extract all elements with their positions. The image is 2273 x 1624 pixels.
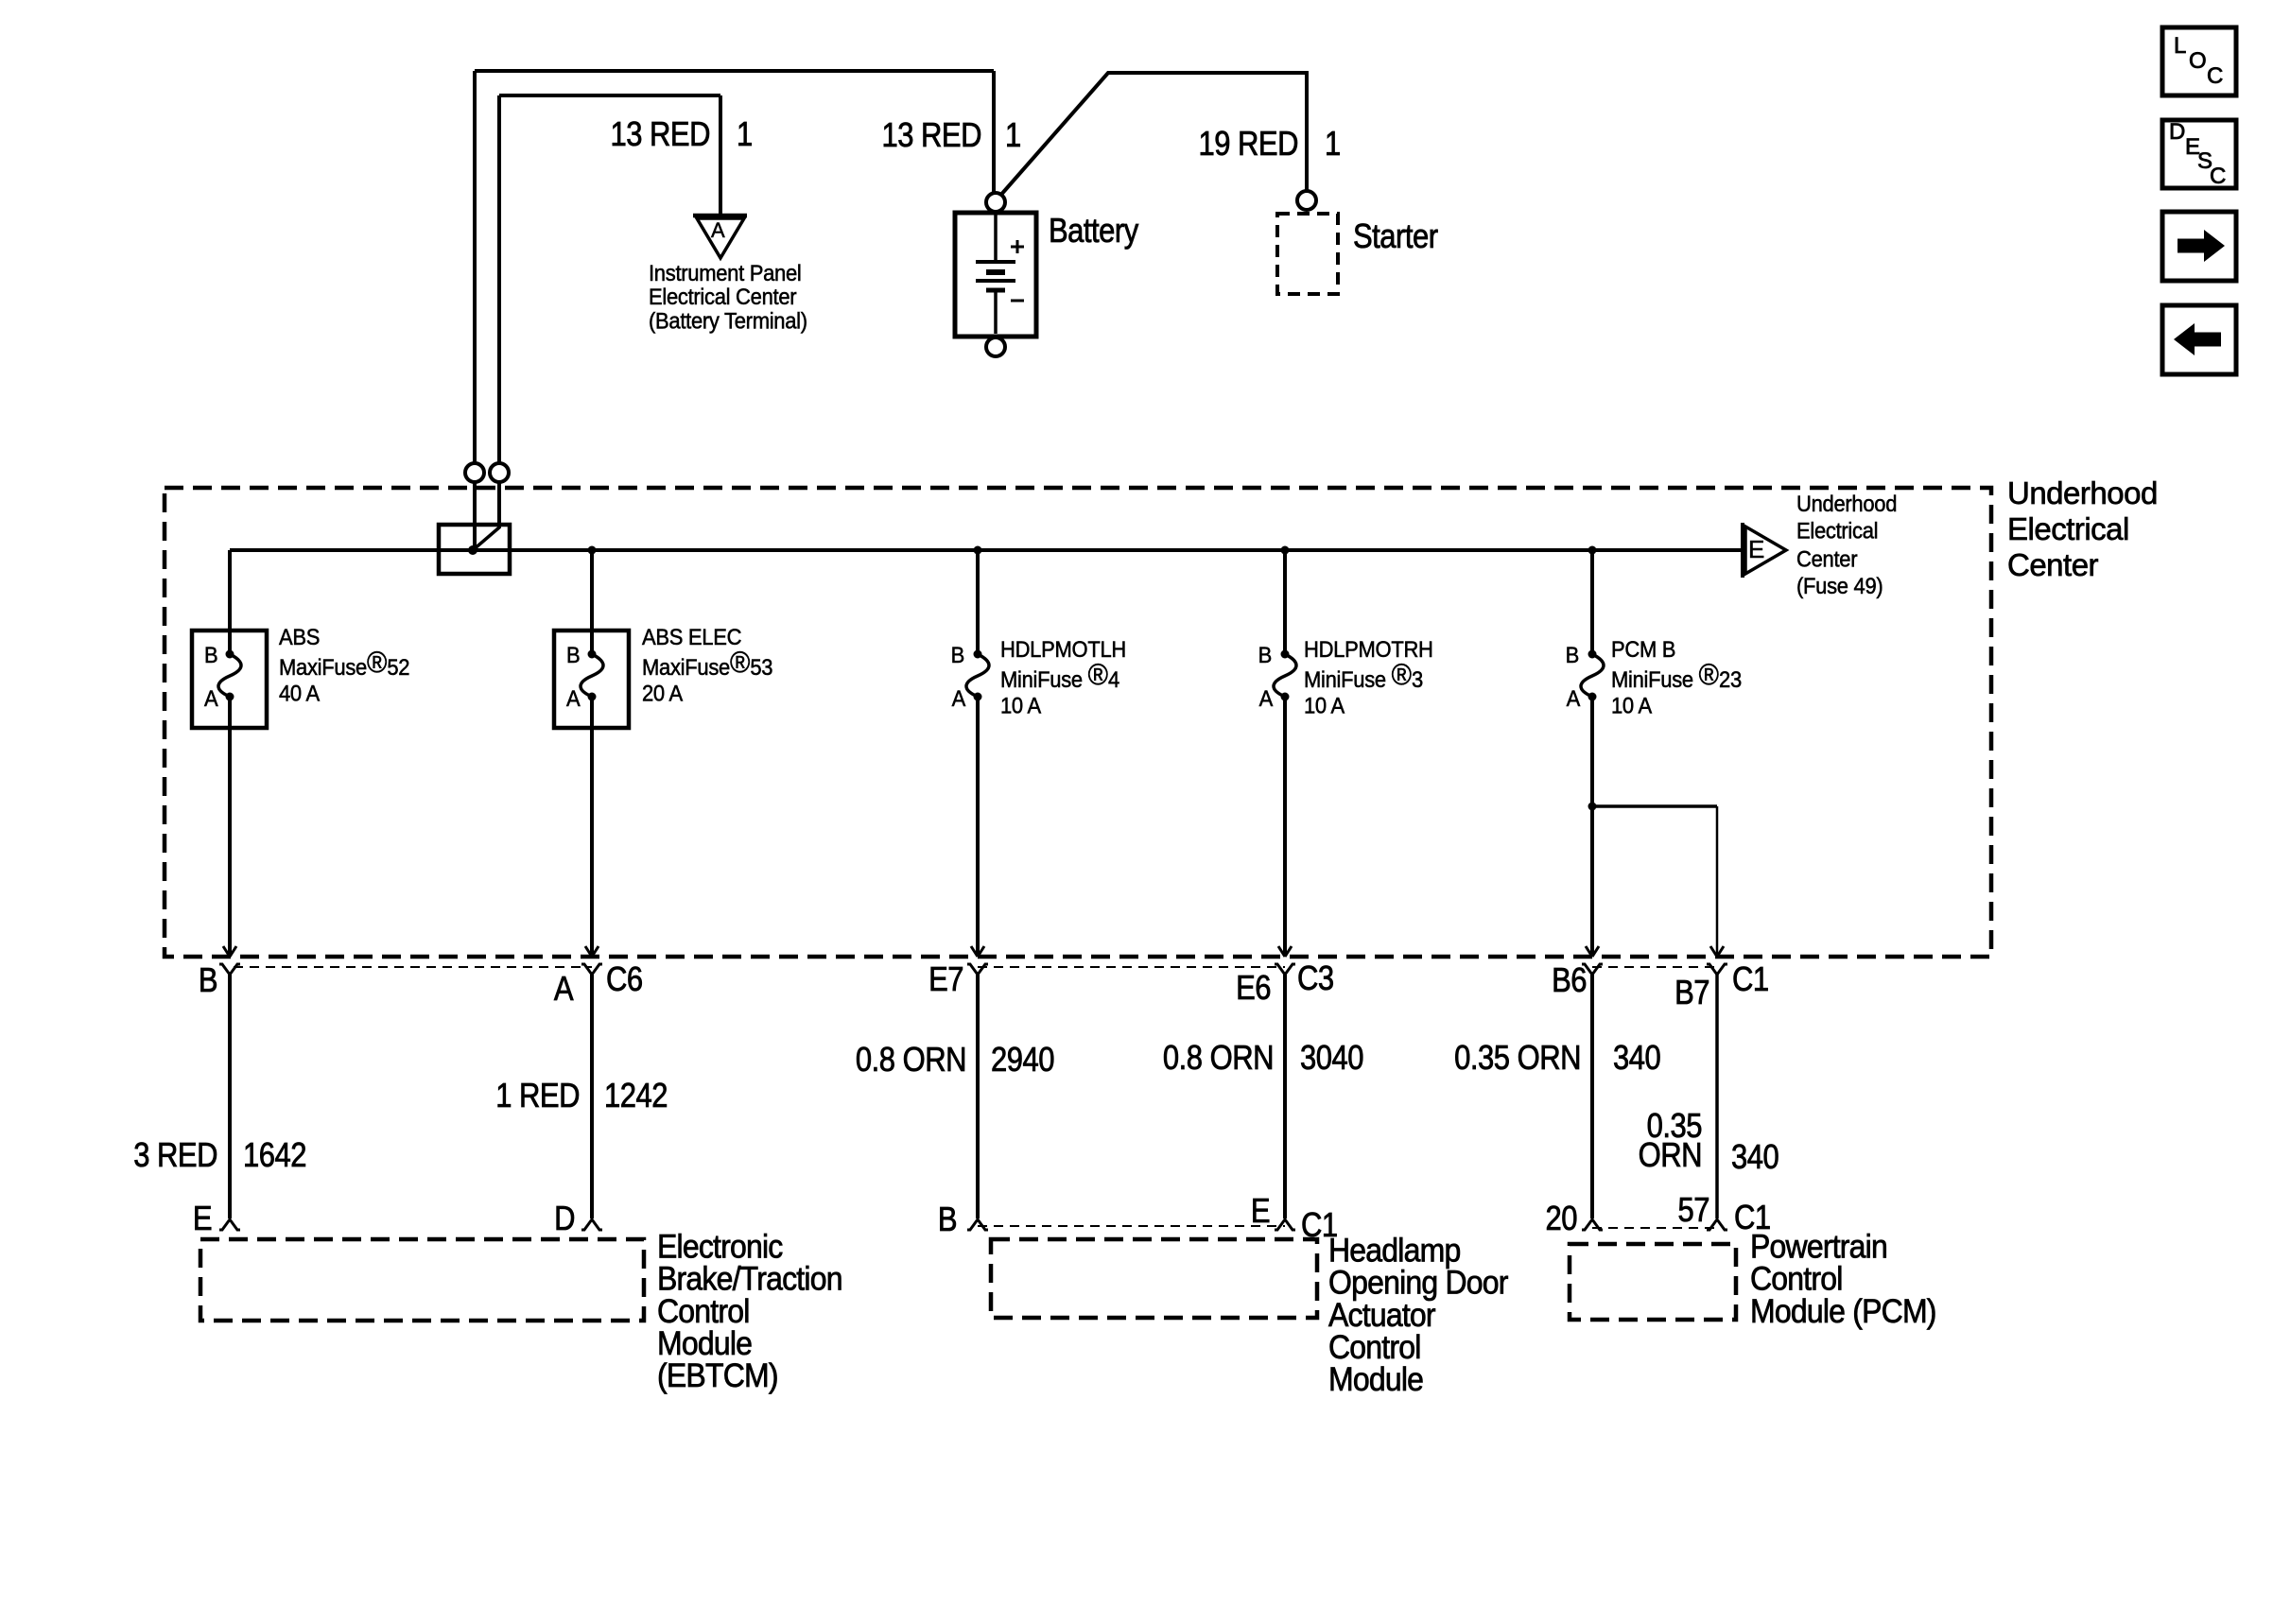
connector - male arrow into underhood box edge, wire 4 — [1278, 946, 1292, 957]
wire - feed into ABS ELEC MaxiFuse 53 — [590, 550, 594, 652]
wire - output of ABS MaxiFuse 52 down to connector — [228, 699, 232, 954]
connector strip dashed line - connector C1 pins B6 / B7 — [1592, 966, 1717, 968]
pin label 20 (PCM C1) — [1546, 1201, 1577, 1235]
connector - chevron at module end, wire 4 — [1275, 1219, 1295, 1230]
connector - chevron at module end, wire 1 — [219, 1219, 240, 1230]
connector name C6 — [606, 962, 643, 996]
fuse terminal letter B (wire x=1359) — [1258, 642, 1272, 668]
connector bullet - outer feed entering underhood center — [465, 463, 484, 482]
fuse element ABS ELEC MaxiFuse 53 (terminal B dot, S-curve, terminal A dot) — [588, 650, 597, 659]
connector - female socket symbol, wire 6 — [1707, 964, 1727, 975]
label - Underhood Electrical Center (outside box) — [2007, 475, 2158, 583]
fuse label - PCM B MiniFuse 23 10 A — [1611, 636, 1742, 718]
label - circuit 340 (PCM 57 branch) — [1731, 1140, 1778, 1174]
battery - minus sign — [1011, 300, 1024, 302]
wire - harness run below connector, wire 3 — [976, 975, 980, 1218]
fuse terminal letter A (wire x=1034) — [952, 685, 965, 712]
icon letter L of LOC — [2174, 35, 2186, 58]
junction dot - HDLPMOTLH fuse tap — [974, 546, 982, 555]
label - wire 3 RED — [133, 1138, 217, 1172]
icon box - back arrow — [2162, 305, 2236, 374]
connector name C3 — [1297, 961, 1334, 995]
battery - plus sign — [1011, 240, 1024, 253]
label - wire 0.8 ORN (left headlamp motor) — [856, 1043, 966, 1077]
fuse element PCM B MiniFuse 23 (terminal B dot, S-curve, terminal A dot) — [1588, 650, 1597, 659]
fuse terminal letter B (wire x=1034) — [951, 642, 964, 668]
wire - vertical drop to battery — [992, 71, 996, 193]
battery - top terminal circle — [986, 193, 1005, 212]
starter - dashed outline box — [1277, 214, 1338, 294]
fuse label - HDLPMOTLH MiniFuse 4 10 A — [1000, 636, 1126, 718]
connector - female socket symbol, wire 1 — [219, 964, 240, 975]
fuse terminal letter A (wire x=1359) — [1259, 685, 1273, 712]
wire - feed into PCM B MiniFuse 23 — [1590, 550, 1594, 652]
fuse label - ABS MaxiFuse 52 40 A — [279, 624, 409, 706]
wire - left vertical drop to underhood center (outer) — [473, 71, 477, 462]
icon letter S of DESC — [2197, 150, 2212, 173]
wire - harness run below connector, wire 6 — [1715, 975, 1719, 1218]
wire - inner feed horizontal run — [499, 94, 720, 97]
headlamp opening door actuator control module - dashed box — [991, 1239, 1317, 1318]
wire - outer feed below bullet to splice — [473, 482, 477, 550]
connector - female socket symbol, wire 4 — [1275, 964, 1295, 975]
fuse terminal letter A (wire x=626) — [566, 685, 580, 712]
connector - chevron at module end, wire 6 — [1707, 1219, 1727, 1230]
wire - feed into HDLPMOTRH MiniFuse 3 — [1283, 550, 1287, 652]
wire - harness run below connector, wire 5 — [1590, 975, 1594, 1218]
label - wire size/color 19 RED (starter feed) — [1198, 127, 1298, 161]
pin label B6 (connector C1) — [1552, 963, 1587, 997]
pin label E (headlamp module C1) — [1251, 1194, 1270, 1228]
label - circuit 1242 — [604, 1079, 668, 1113]
connector - male arrow into underhood box edge, wire 5 — [1586, 946, 1599, 957]
connector - male arrow into underhood box edge, wire 2 — [585, 946, 599, 957]
label - wire 0.35 ORN (PCM 57 branch) — [1639, 1111, 1702, 1170]
wire - feed into ABS MaxiFuse 52 — [228, 550, 232, 652]
caption - Underhood Electrical Center (Fuse 49) — [1796, 491, 1897, 600]
component name - Starter — [1353, 219, 1438, 253]
fuse label - HDLPMOTRH MiniFuse 3 10 A — [1304, 636, 1433, 718]
fuse terminal letter A (wire x=1684) — [1567, 685, 1580, 712]
powertrain control module (PCM) - dashed box — [1570, 1244, 1736, 1320]
pin label A (connector C6) — [554, 972, 573, 1006]
fuse terminal letter B (wire x=1684) — [1566, 642, 1579, 668]
label - wire size/color 13 RED (battery feed) — [881, 118, 981, 152]
connector name C1 (PCM) — [1734, 1201, 1771, 1235]
wire - output of HDLPMOTRH MiniFuse 3 down to connector — [1283, 699, 1287, 954]
label - circuit 1642 — [243, 1138, 306, 1172]
connector - chevron at module end, wire 3 — [967, 1219, 988, 1230]
battery - bottom terminal circle — [986, 337, 1005, 356]
module label - Powertrain Control Module (PCM) — [1750, 1231, 1936, 1327]
fuse terminal letter A (wire x=243) — [204, 685, 217, 712]
wire - main power bus inside underhood electrical center — [230, 548, 1743, 552]
icon box - LOC — [2162, 27, 2236, 95]
connector strip dashed line - connector C3 pins E7 / E6 — [978, 966, 1285, 968]
connector name C1 (underhood side) — [1732, 962, 1769, 996]
off-page triangle E - to underhood electrical center fuse 49 — [1741, 523, 1744, 578]
module label - Electronic Brake/Traction Control Module (EBTCM) — [657, 1231, 842, 1392]
fuse label - ABS ELEC MaxiFuse 53 20 A — [642, 624, 772, 706]
connector - male arrow into underhood box edge, wire 1 — [223, 946, 236, 957]
wire - branch from PCM B fuse to connector B7 — [1592, 804, 1717, 808]
wire - output of HDLPMOTLH MiniFuse 4 down to connector — [976, 699, 980, 954]
label - wire 0.8 ORN (right headlamp motor) — [1163, 1041, 1274, 1075]
wire - starter feed (diagonal from battery, horizontal, drop to starter) — [999, 73, 1307, 197]
junction dot - branch to PCM pin 57 — [1588, 803, 1597, 811]
connector name C1 (headlamp module) — [1301, 1208, 1338, 1242]
wire - inner feed below bullet into splice box — [497, 482, 501, 528]
label - circuit number 1 (starter feed) — [1325, 127, 1341, 161]
splice junction dot — [468, 545, 477, 555]
connector - female socket symbol, wire 2 — [581, 964, 602, 975]
letter A inside instrument panel triangle — [711, 216, 725, 243]
wire - inner vertical drop to underhood center — [497, 95, 501, 462]
wire - harness run below connector, wire 1 — [228, 975, 232, 1218]
pin label E7 (connector C3) — [928, 962, 963, 996]
component name - Battery — [1049, 214, 1138, 248]
pin label E (EBTCM) — [193, 1201, 212, 1235]
underhood electrical center - large dashed boundary box — [165, 488, 1991, 957]
pin label 57 (PCM C1) — [1678, 1193, 1709, 1227]
fuse box outline - ABS MaxiFuse 52 — [192, 631, 267, 728]
icon letter D of DESC — [2169, 121, 2185, 144]
label - circuit number 1 (inner feed) — [737, 117, 753, 151]
icon letter E of DESC — [2185, 136, 2200, 159]
junction dot - PCM B fuse tap — [1588, 546, 1597, 555]
connector - female socket symbol, wire 5 — [1582, 964, 1603, 975]
icon box - forward arrow — [2162, 212, 2236, 281]
pin label B (EBTCM feed at underhood connector) — [199, 963, 217, 997]
pin label B7 (connector C1) — [1674, 976, 1709, 1010]
wire - feed into HDLPMOTLH MiniFuse 4 — [976, 550, 980, 652]
label - wire 1 RED — [495, 1079, 580, 1113]
connector strip dashed line - PCM connector C1 pins 20 / 57 — [1592, 1227, 1717, 1229]
fuse element HDLPMOTLH MiniFuse 4 (terminal B dot, S-curve, terminal A dot) — [974, 650, 982, 659]
caption - Instrument Panel Electrical Center (Battery Terminal) — [649, 261, 807, 334]
label - circuit 3040 — [1300, 1041, 1363, 1075]
connector - male arrow into underhood box edge, wire 6 — [1710, 946, 1724, 957]
label - wire 0.35 ORN (PCM B6) — [1454, 1041, 1581, 1075]
connector - male arrow into underhood box edge, wire 3 — [971, 946, 984, 957]
junction dot - ABS ELEC fuse tap — [588, 546, 597, 555]
wire - drop to instrument panel triangle A — [719, 95, 722, 214]
fuse element ABS MaxiFuse 52 (terminal B dot, S-curve, terminal A dot) — [226, 650, 234, 659]
icon letter C of LOC — [2207, 65, 2223, 88]
letter E inside underhood triangle — [1748, 537, 1764, 561]
fuse box outline - ABS ELEC MaxiFuse 53 — [554, 631, 629, 728]
label - wire size/color 13 RED (inner feed) — [610, 117, 710, 151]
module label - Headlamp Opening Door Actuator Control Module — [1328, 1235, 1508, 1396]
label - circuit 340 (PCM B6) — [1613, 1041, 1660, 1075]
fuse terminal letter B (wire x=626) — [566, 642, 580, 668]
battery - internal cell symbol — [994, 213, 998, 261]
connector - female socket symbol, wire 3 — [967, 964, 988, 975]
icon box - DESC — [2162, 120, 2236, 188]
connector - chevron at module end, wire 5 — [1582, 1219, 1603, 1230]
off-page triangle A - instrument panel electrical center battery terminal — [693, 214, 747, 218]
icon letter O of LOC — [2189, 50, 2207, 73]
wire - PCM B fuse output down to connector B6 — [1590, 699, 1594, 954]
fuse element HDLPMOTRH MiniFuse 3 (terminal B dot, S-curve, terminal A dot) — [1281, 650, 1290, 659]
connector strip dashed line - connector at pins B / A (C6) — [234, 966, 592, 968]
pin label E6 (connector C3) — [1236, 971, 1271, 1005]
connector - chevron at module end, wire 2 — [581, 1219, 602, 1230]
starter - terminal circle — [1297, 191, 1316, 210]
electronic brake/traction control module (EBTCM) - dashed box — [200, 1239, 644, 1321]
label - circuit number 1 (battery feed) — [1005, 118, 1021, 152]
splice junction box on battery feed bus — [439, 525, 510, 574]
wire - battery positive feed, top horizontal run — [475, 69, 994, 73]
connector strip dashed line - headlamp module connector C1 pins B / E — [978, 1225, 1285, 1227]
label - circuit 2940 — [991, 1043, 1054, 1077]
pin label B (headlamp module) — [938, 1202, 957, 1236]
pin label D (EBTCM) — [554, 1201, 575, 1235]
wire - harness run below connector, wire 2 — [590, 975, 594, 1218]
junction dot - HDLPMOTRH fuse tap — [1281, 546, 1290, 555]
splice diagonal link — [473, 527, 499, 550]
fuse terminal letter B (wire x=243) — [204, 642, 217, 668]
connector bullet - inner feed entering underhood center — [490, 463, 509, 482]
wire - harness run below connector, wire 4 — [1283, 975, 1287, 1218]
battery - outer case — [955, 213, 1036, 337]
icon letter C of DESC — [2210, 165, 2226, 188]
wire - output of ABS ELEC MaxiFuse 53 down to connector — [590, 699, 594, 954]
